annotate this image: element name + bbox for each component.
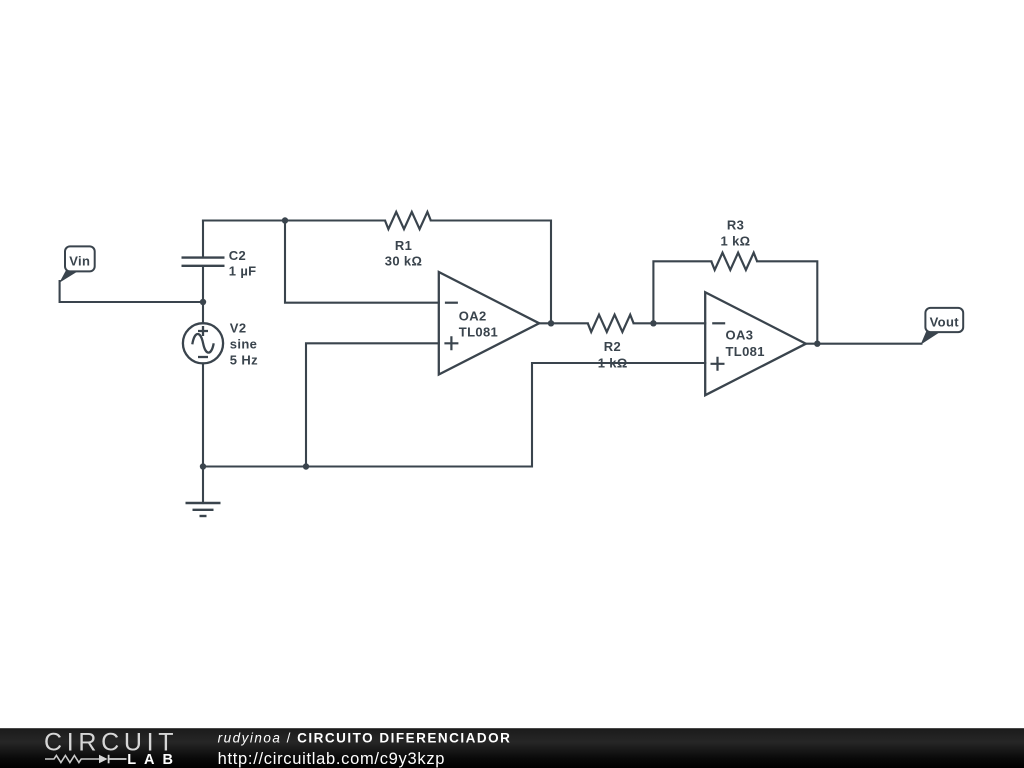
svg-text:LAB: LAB [127,752,181,768]
svg-text:Vin: Vin [69,253,90,268]
svg-text:http://circuitlab.com/c9y3kzp: http://circuitlab.com/c9y3kzp [218,750,446,768]
svg-text:1 kΩ: 1 kΩ [721,234,751,249]
svg-text:5 Hz: 5 Hz [230,352,258,367]
svg-text:30 kΩ: 30 kΩ [385,253,422,268]
svg-text:C2: C2 [229,248,246,263]
svg-text:V2: V2 [230,321,247,336]
svg-text:sine: sine [230,336,257,351]
svg-text:R1: R1 [395,238,412,253]
svg-text:R3: R3 [727,217,744,232]
svg-text:TL081: TL081 [459,324,498,339]
svg-text:OA3: OA3 [726,328,754,343]
svg-text:R2: R2 [604,339,621,354]
svg-text:OA2: OA2 [459,308,487,323]
svg-text:Vout: Vout [930,314,960,329]
svg-text:TL081: TL081 [726,344,765,359]
svg-text:1 µF: 1 µF [229,263,257,278]
svg-text:rudyinoa / CIRCUITO DIFERENCIA: rudyinoa / CIRCUITO DIFERENCIADOR [218,731,512,746]
svg-text:1 kΩ: 1 kΩ [598,355,628,370]
